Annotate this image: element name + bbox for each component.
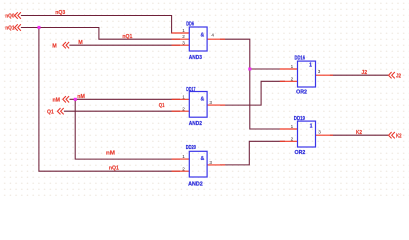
svg-text:&: & [201, 33, 205, 39]
svg-text:nQ3: nQ3 [55, 10, 65, 16]
svg-text:2: 2 [291, 76, 294, 81]
svg-text:K2: K2 [396, 133, 402, 139]
svg-text:3: 3 [318, 69, 321, 74]
svg-text:1: 1 [182, 154, 185, 159]
svg-text:1: 1 [310, 123, 313, 129]
svg-text:OR2: OR2 [295, 150, 306, 156]
svg-text:nQ1: nQ1 [5, 26, 14, 32]
svg-text:AND2: AND2 [188, 181, 203, 187]
svg-text:OR2: OR2 [296, 90, 307, 96]
svg-text:J2: J2 [396, 73, 401, 79]
svg-text:1: 1 [182, 28, 185, 33]
svg-text:3: 3 [182, 40, 185, 45]
svg-text:K2: K2 [356, 130, 362, 136]
svg-text:&: & [201, 156, 205, 162]
svg-text:nM: nM [77, 94, 85, 100]
svg-text:AND2: AND2 [189, 121, 202, 127]
svg-text:3: 3 [318, 129, 321, 134]
svg-text:DD16: DD16 [295, 56, 306, 62]
svg-text:M: M [52, 44, 57, 50]
svg-text:2: 2 [182, 34, 185, 39]
svg-text:nM: nM [106, 150, 116, 156]
svg-text:1: 1 [291, 64, 294, 69]
svg-text:DD17: DD17 [186, 87, 195, 93]
svg-text:3: 3 [209, 100, 212, 105]
svg-text:&: & [201, 96, 205, 102]
svg-text:1: 1 [291, 124, 294, 129]
svg-text:DD6: DD6 [186, 22, 194, 28]
svg-text:DD19: DD19 [294, 116, 305, 122]
svg-text:nQ0: nQ0 [5, 14, 14, 20]
svg-text:2: 2 [182, 166, 185, 171]
svg-text:DD20: DD20 [186, 145, 196, 151]
svg-text:AND3: AND3 [189, 55, 202, 61]
svg-text:Q1: Q1 [47, 109, 54, 115]
svg-text:nM: nM [53, 97, 61, 103]
svg-text:M: M [78, 40, 83, 46]
svg-text:Q1: Q1 [159, 103, 165, 109]
svg-text:2: 2 [182, 106, 185, 111]
svg-text:J2: J2 [361, 70, 367, 76]
svg-text:nQ1: nQ1 [109, 166, 119, 172]
svg-text:1: 1 [309, 62, 312, 68]
svg-text:2: 2 [291, 136, 294, 141]
svg-text:4: 4 [211, 33, 214, 38]
svg-text:nQ1: nQ1 [122, 34, 132, 40]
svg-text:1: 1 [182, 94, 185, 99]
svg-text:3: 3 [209, 160, 212, 165]
